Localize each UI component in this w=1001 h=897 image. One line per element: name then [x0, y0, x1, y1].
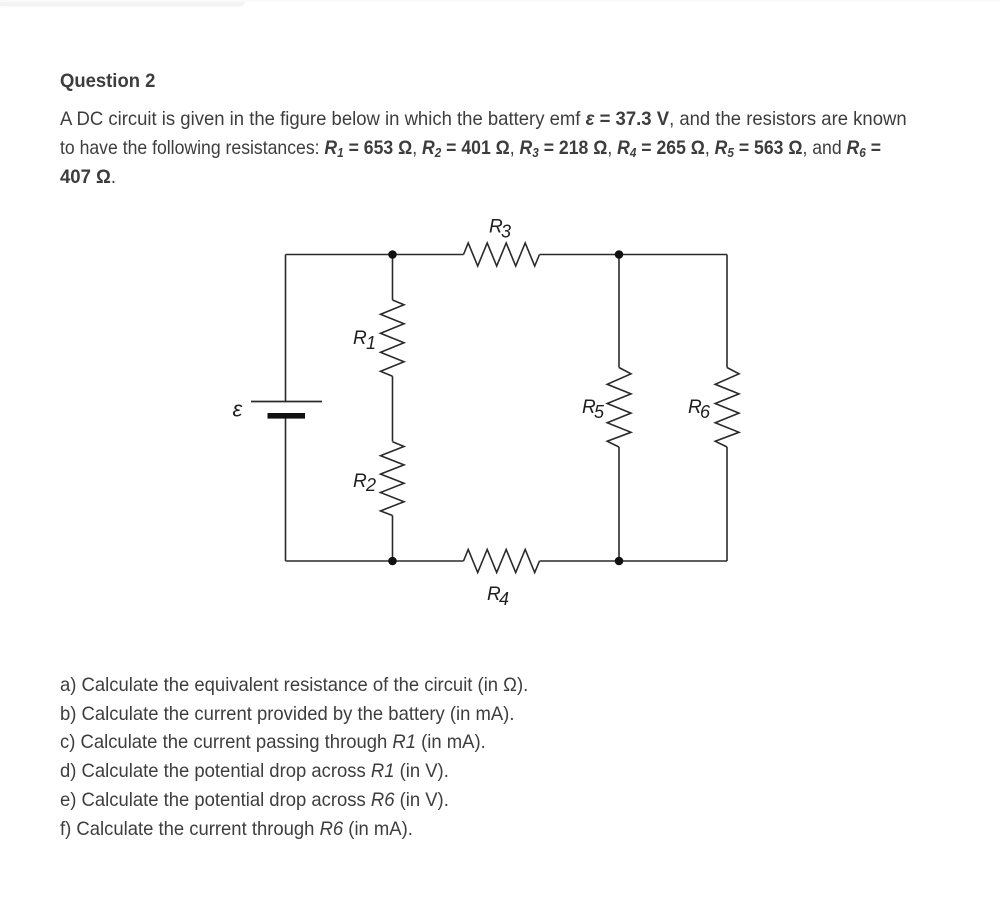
resistor R6	[715, 368, 739, 448]
wire: top rail node A to R3	[393, 254, 464, 256]
question items	[60, 671, 528, 843]
paragraph	[60, 105, 969, 192]
wire: bottom rail R4 to node C	[540, 560, 619, 562]
resistor R1	[381, 300, 405, 376]
svg-text:1: 1	[366, 333, 376, 353]
node A (top junction of R1 branch)	[388, 250, 397, 259]
wire: bottom rail node D to R4	[393, 560, 464, 562]
battery emf source: long positive plate	[251, 401, 322, 403]
svg-text:R: R	[353, 328, 367, 349]
wire: left rail top (battery + to top-left corner)	[285, 255, 287, 402]
wire: node B down to R5	[618, 255, 620, 368]
svg-text:R: R	[353, 471, 367, 492]
wire: R2 to bottom node D	[392, 516, 394, 562]
wire: top rail from left corner to node A	[286, 254, 393, 256]
heading	[60, 70, 155, 93]
wire: right rail bottom (R6 to bottom-right corner)	[726, 447, 728, 561]
svg-text:5: 5	[594, 402, 605, 422]
svg-text:4: 4	[499, 589, 509, 609]
resistor R5	[607, 368, 631, 448]
node D (bottom junction of R2 branch)	[388, 557, 397, 566]
wire: top rail R3 to node B	[540, 254, 619, 256]
wire: R5 to bottom node C	[618, 447, 620, 561]
label R1	[353, 328, 376, 353]
svg-text:ε: ε	[233, 397, 243, 422]
svg-text:3: 3	[501, 222, 511, 242]
wire: top rail node B to top-right corner	[619, 254, 727, 256]
svg-text:6: 6	[700, 402, 711, 422]
node B (top junction of R5 branch)	[615, 250, 624, 259]
svg-text:2: 2	[365, 475, 376, 495]
label ε (emf)	[233, 397, 243, 422]
top-left gray strip remnant	[0, 0, 245, 6]
wire: node A down to R1	[392, 255, 394, 301]
wire: bottom rail node C to bottom-right corner	[619, 560, 727, 562]
wire: right rail top (corner to R6)	[726, 255, 728, 368]
label R2	[353, 471, 376, 495]
wire: bottom rail left corner to node D	[286, 560, 393, 562]
resistor R3	[464, 243, 540, 266]
wire: left rail bottom (bottom-left corner up to battery -)	[285, 418, 287, 561]
label R6	[688, 397, 711, 422]
node C (bottom junction of R5 branch)	[615, 557, 624, 566]
label R3	[489, 217, 511, 242]
wire: R1 to R2	[392, 376, 394, 441]
label R5	[582, 397, 605, 422]
battery emf source: short thick negative plate	[268, 413, 306, 419]
label R4	[487, 584, 509, 609]
resistor R2	[381, 442, 405, 516]
resistor R4	[464, 550, 540, 573]
